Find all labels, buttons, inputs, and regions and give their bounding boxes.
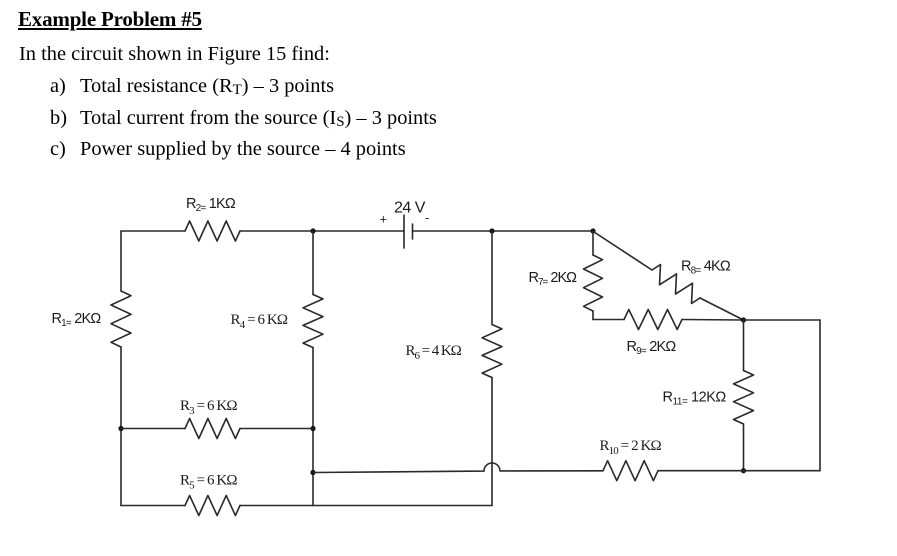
- node dot right mid: [741, 317, 746, 322]
- battery V1 long plate (+): [403, 215, 405, 248]
- node dot mid at R3: [310, 426, 315, 431]
- wire top mid segment: [240, 230, 404, 232]
- svg-text:R10 = 2 KΩ: R10 = 2 KΩ: [600, 438, 662, 457]
- svg-text:R3 = 6 KΩ: R3 = 6 KΩ: [180, 398, 237, 417]
- R8 lead lower: [700, 298, 744, 320]
- svg-text:+: +: [380, 212, 388, 227]
- svg-text:R7= 2KΩ: R7= 2KΩ: [529, 270, 578, 288]
- left vertical wire upper: [120, 231, 122, 291]
- R9 wire left: [593, 319, 624, 321]
- right vertical wire: [819, 320, 821, 471]
- battery V1 short plate (-): [412, 224, 414, 239]
- node dot at x=593 top right: [590, 228, 595, 233]
- resistor R5: [185, 496, 240, 516]
- R11 lead lower: [743, 424, 745, 471]
- wire top right segment: [413, 230, 594, 232]
- wire top left segment: [121, 230, 185, 232]
- resistor R9: [624, 310, 682, 330]
- bottom right wire: [744, 470, 821, 472]
- node dot at x=492 top: [489, 228, 494, 233]
- wire R10 left with hop over R6 line: [313, 463, 603, 472]
- R6 vertical wire upper: [491, 231, 493, 325]
- resistor R4: [303, 295, 323, 348]
- middle vertical wire upper: [312, 231, 314, 295]
- R8 lead upper: [593, 231, 653, 270]
- resistor R2: [185, 221, 240, 241]
- item c: [50, 138, 66, 161]
- left vertical wire lower: [120, 347, 122, 506]
- resistor R11: [734, 371, 754, 425]
- resistor R10: [603, 461, 658, 481]
- R7 lead from top node: [592, 231, 594, 255]
- intro line: [19, 43, 330, 66]
- svg-text:R6 = 4 KΩ: R6 = 4 KΩ: [406, 343, 462, 362]
- middle vertical wire lower: [312, 348, 314, 506]
- node dot mid at tap wire: [310, 470, 315, 475]
- svg-text:R1= 2KΩ: R1= 2KΩ: [52, 311, 102, 329]
- bottom wire right: [240, 505, 492, 507]
- svg-text:24 V: 24 V: [394, 200, 426, 217]
- node dot left at R3: [118, 426, 123, 431]
- R3 wire left: [121, 428, 185, 430]
- item a: [50, 75, 66, 98]
- svg-text:R5 = 6 KΩ: R5 = 6 KΩ: [180, 473, 237, 492]
- resistor R7: [584, 255, 603, 311]
- wire R10 right: [658, 470, 744, 472]
- R6 vertical wire lower: [491, 378, 493, 506]
- svg-text:R4 = 6 KΩ: R4 = 6 KΩ: [231, 312, 288, 331]
- R7 lead to R9 wire: [592, 311, 594, 320]
- node dot at x=313 top: [310, 228, 315, 233]
- R3 wire right: [240, 428, 313, 430]
- title: Example Problem #5: [18, 7, 202, 32]
- resistor R3: [185, 419, 240, 439]
- item b: [50, 107, 67, 130]
- R11 lead upper: [743, 320, 745, 371]
- R9 wire right: [682, 319, 744, 322]
- wire right from node: [744, 319, 821, 321]
- svg-text:R2= 1KΩ: R2= 1KΩ: [186, 196, 236, 214]
- resistor R1: [111, 291, 131, 347]
- node dot bottom right: [741, 468, 746, 473]
- bottom wire left: [121, 505, 185, 507]
- svg-text:R11= 12KΩ: R11= 12KΩ: [663, 390, 727, 408]
- svg-text:-: -: [425, 210, 429, 225]
- svg-text:R9= 2KΩ: R9= 2KΩ: [627, 339, 677, 357]
- svg-text:R8= 4KΩ: R8= 4KΩ: [681, 259, 731, 277]
- resistor R6: [482, 325, 502, 378]
- resistor R8: [652, 265, 700, 304]
